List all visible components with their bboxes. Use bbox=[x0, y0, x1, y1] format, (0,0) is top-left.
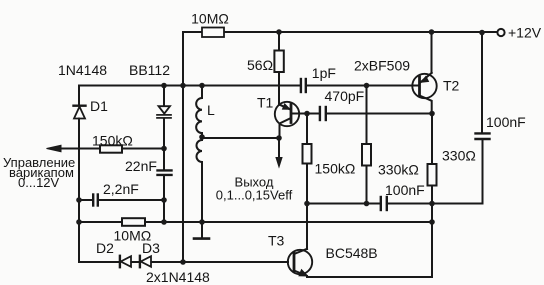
svg-text:100nF: 100nF bbox=[486, 114, 526, 130]
node dot 202/222 bbox=[199, 219, 205, 225]
node dot 330k top tap bbox=[364, 83, 370, 89]
resistor R 10M (bottom) bbox=[122, 218, 145, 226]
capacitor C 1p bbox=[300, 79, 302, 92]
svg-text:D1: D1 bbox=[90, 98, 108, 114]
svg-text:2,2nF: 2,2nF bbox=[103, 181, 139, 197]
diode D1 1N4148 bbox=[78, 86, 80, 263]
node dot rail/56 bbox=[276, 29, 282, 35]
svg-text:T1: T1 bbox=[257, 95, 274, 111]
inductor L bbox=[201, 86, 203, 99]
ground bbox=[201, 222, 203, 237]
node dot 150k bottom bbox=[304, 201, 310, 207]
svg-text:D2: D2 bbox=[96, 240, 114, 256]
transistor T3 bbox=[288, 250, 312, 274]
input arrow (varicap control) bbox=[60, 148, 164, 150]
node dot 330k bottom bbox=[364, 201, 370, 207]
node dot 79/200 bbox=[76, 197, 82, 203]
node dot T2 collector bbox=[429, 111, 435, 117]
svg-text:470pF: 470pF bbox=[325, 88, 365, 104]
svg-text:0...12V: 0...12V bbox=[18, 175, 60, 190]
node dot T1 base bbox=[304, 111, 310, 117]
output arrow bbox=[278, 138, 280, 158]
transistor T2 bbox=[431, 32, 433, 73]
svg-text:2xBF509: 2xBF509 bbox=[354, 58, 410, 74]
node dot 330 bottom bbox=[429, 201, 435, 207]
diode D2 bbox=[119, 256, 121, 267]
svg-text:150kΩ: 150kΩ bbox=[315, 161, 356, 177]
wire feedback line y=203.5 bbox=[307, 203, 483, 205]
wire top supply rail bbox=[183, 31, 497, 33]
svg-text:D3: D3 bbox=[142, 240, 160, 256]
svg-text:T2: T2 bbox=[443, 78, 460, 94]
svg-text:L: L bbox=[207, 102, 215, 118]
node dot rail/T2 bbox=[429, 29, 435, 35]
capacitor C 100n (mid) bbox=[380, 197, 382, 210]
resistor R 330 bbox=[431, 114, 433, 278]
node dot 164/222 bbox=[161, 219, 167, 225]
wire varicap top line y=85.5 bbox=[79, 85, 420, 87]
node dot 432/222 bbox=[429, 219, 435, 225]
wire left vertical bus x=183 bbox=[182, 32, 184, 262]
wire L tap to T1 bbox=[202, 137, 279, 139]
wire bottom diode line y=262 bbox=[79, 261, 288, 263]
resistor R 10M (top) bbox=[202, 28, 224, 38]
node dot 183/262 bbox=[180, 259, 186, 265]
svg-text:BC548B: BC548B bbox=[326, 245, 378, 261]
capacitor C 100n (right) bbox=[481, 33, 484, 204]
node dot L tap bbox=[199, 134, 205, 140]
svg-text:2x1N4148: 2x1N4148 bbox=[146, 269, 210, 285]
terminal +12V circle bbox=[497, 29, 504, 36]
node dot BB112 bottom / 150k bbox=[161, 146, 167, 152]
svg-text:0,1...0,15Veff: 0,1...0,15Veff bbox=[216, 188, 293, 203]
node dot 164/200 bbox=[161, 197, 167, 203]
capacitor C 22n bbox=[163, 149, 165, 171]
node dot BB112 top bbox=[161, 83, 167, 89]
svg-text:BB112: BB112 bbox=[129, 62, 170, 78]
resistor R 150k (mid) bbox=[306, 114, 308, 250]
resistor R 330k bbox=[366, 86, 368, 204]
resistor R 150k (left) bbox=[100, 145, 122, 152]
node dot rail/100n bbox=[479, 30, 485, 36]
node dot T1 emitter-output bbox=[276, 135, 282, 141]
svg-text:150kΩ: 150kΩ bbox=[92, 133, 133, 149]
resistor R 56 bbox=[278, 32, 280, 105]
wire bias line y=222 bbox=[79, 221, 432, 223]
wire T3 emitter bottom bbox=[307, 276, 432, 277]
svg-text:56Ω: 56Ω bbox=[247, 57, 273, 73]
svg-text:1pF: 1pF bbox=[312, 65, 336, 81]
transistor T1 bbox=[275, 102, 299, 126]
svg-text:+12V: +12V bbox=[508, 25, 542, 41]
varicap BB112 bbox=[163, 86, 165, 171]
svg-text:330Ω: 330Ω bbox=[442, 148, 476, 164]
svg-text:T3: T3 bbox=[268, 233, 285, 249]
svg-text:100nF: 100nF bbox=[385, 182, 425, 198]
capacitor C 470p line bbox=[307, 113, 432, 115]
svg-text:330kΩ: 330kΩ bbox=[378, 162, 419, 178]
svg-text:10MΩ: 10MΩ bbox=[191, 11, 229, 27]
capacitor C 2.2n line bbox=[79, 199, 164, 201]
diode D3 bbox=[139, 256, 141, 267]
svg-text:1N4148: 1N4148 bbox=[58, 62, 107, 78]
node dot L top bbox=[199, 83, 205, 89]
svg-text:22nF: 22nF bbox=[125, 158, 157, 174]
node dot 183/85 bbox=[180, 83, 186, 89]
node dot 79/222 bbox=[76, 219, 82, 225]
